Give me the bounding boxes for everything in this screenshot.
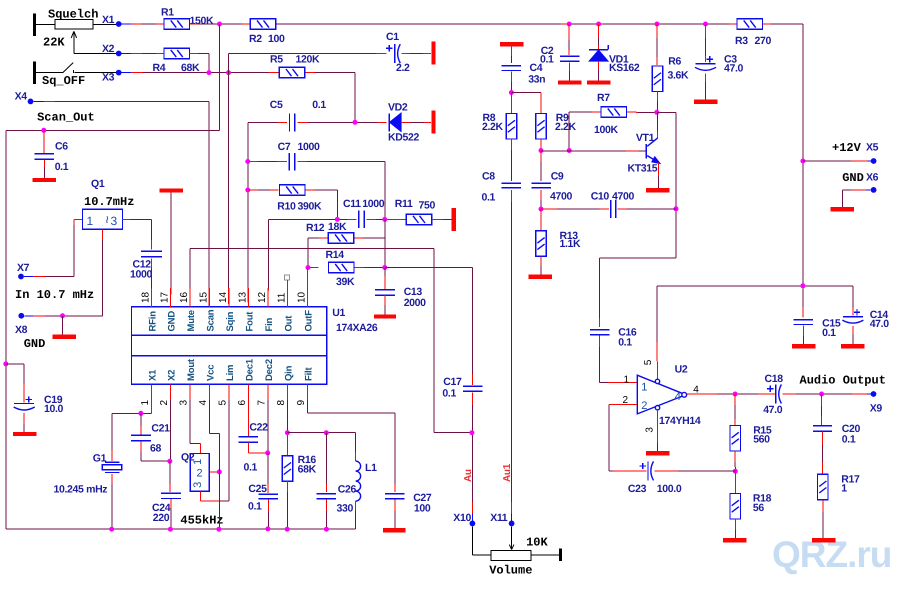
svg-text:4700: 4700 [550, 191, 572, 203]
svg-text:R14: R14 [326, 249, 345, 261]
wire Q1 pin2 to X8 gnd [102, 229, 104, 240]
svg-text:C22: C22 [249, 422, 268, 434]
svg-text:1000: 1000 [130, 268, 152, 280]
svg-text:100K: 100K [594, 124, 618, 136]
svg-text:OutF: OutF [303, 310, 314, 332]
svg-text:0.1: 0.1 [312, 99, 326, 111]
VT1 collector [647, 138, 658, 146]
svg-text:Mute: Mute [186, 310, 197, 331]
capacitor C18 polarized [767, 388, 773, 390]
wire pot to X1 [93, 23, 116, 25]
svg-text:L1: L1 [365, 462, 377, 474]
resistor R17 [818, 474, 829, 500]
svg-text:GND: GND [166, 311, 177, 332]
wire to X5 [803, 160, 851, 162]
wire to R13 [540, 209, 542, 222]
svg-text:10.7mHz: 10.7mHz [84, 195, 134, 209]
svg-text:33n: 33n [528, 74, 545, 86]
svg-text:Scan_Out: Scan_Out [37, 111, 95, 125]
svg-text:KT315: KT315 [628, 162, 658, 174]
node junction C21/X2 [167, 459, 172, 464]
resistor R11 [406, 214, 432, 225]
svg-text:6: 6 [237, 400, 248, 406]
node junction C6 branch [41, 128, 46, 133]
wire X8 to junction [24, 315, 33, 317]
svg-text:10.0: 10.0 [44, 403, 64, 415]
wire C7 row [248, 161, 258, 163]
svg-text:9: 9 [296, 400, 307, 406]
wire R10 to C11 row [306, 189, 315, 191]
wire to C2 [568, 24, 570, 40]
svg-text:KS162: KS162 [609, 62, 640, 74]
svg-text:0.1: 0.1 [55, 161, 69, 173]
ground pin17 GND bar [160, 188, 184, 192]
svg-text:Volume: Volume [489, 564, 532, 578]
node junction X3/R4 [207, 70, 212, 75]
svg-text:0.1: 0.1 [482, 192, 496, 204]
wire to C19 [6, 363, 24, 365]
svg-text:Mout: Mout [186, 358, 197, 381]
ground bus wire [6, 528, 356, 530]
wire C3 to ground [705, 73, 707, 82]
svg-text:14: 14 [218, 291, 229, 303]
svg-text:R7: R7 [597, 92, 610, 104]
svg-text:100: 100 [414, 502, 431, 514]
svg-text:1: 1 [641, 381, 647, 393]
node junction R5/C5/VD2 [353, 120, 358, 125]
svg-text:+12V: +12V [832, 141, 862, 155]
wire C1 row from X3 junction [228, 54, 230, 73]
node junction X8 ground [60, 313, 65, 318]
connector X6 [871, 187, 877, 193]
wire C18 to X9 [783, 393, 796, 395]
node junction C20 [819, 392, 824, 397]
svg-text:4: 4 [198, 400, 209, 406]
crystal filter Q2 body [190, 454, 209, 492]
svg-text:220: 220 [153, 512, 170, 524]
wire Q1 pin3 to pin18 RFin [123, 218, 131, 220]
wire pin4 Vcc jog down to bus [209, 400, 211, 433]
wire C10 row [541, 208, 557, 210]
resistor R3 [737, 19, 763, 30]
wire C9 to C10 row [540, 190, 542, 200]
node junction R7 column [567, 148, 572, 153]
node junction X3/C1 branch [226, 70, 231, 75]
wire Mute pin16 row [189, 288, 191, 307]
svg-text:RFin: RFin [147, 311, 158, 332]
node junction C7 [245, 159, 250, 164]
wire X6 to ground [866, 189, 871, 191]
wire R18 to ground [734, 519, 736, 530]
resistor R2 [250, 19, 276, 30]
capacitor C23 polarized [640, 465, 646, 467]
node junction Q2 pin2 [217, 469, 222, 474]
connector X4 [28, 99, 34, 105]
svg-text:1.1K: 1.1K [560, 238, 582, 250]
wire C25 to bus [267, 500, 269, 512]
wire junction to R8 [510, 93, 512, 114]
ground C2 [558, 80, 582, 84]
svg-text:100.0: 100.0 [657, 483, 682, 495]
ground R11 terminal [452, 208, 456, 231]
svg-text:18K: 18K [328, 221, 347, 233]
svg-text:Q1: Q1 [91, 178, 105, 190]
wire C14 to ground [852, 326, 854, 334]
svg-text:13: 13 [237, 291, 248, 303]
connector X3 [116, 70, 122, 76]
wire C22 jog to pin7 line [247, 442, 249, 453]
svg-text:X2: X2 [166, 370, 177, 381]
svg-text:X8: X8 [15, 324, 28, 336]
svg-text:C5: C5 [270, 99, 283, 111]
svg-text:Out: Out [283, 315, 294, 332]
svg-text:1: 1 [624, 374, 630, 385]
no-connect square pin11 [284, 275, 289, 280]
node junction bus C26 [324, 527, 329, 532]
connector X11 [509, 521, 515, 527]
svg-text:Sq_OFF: Sq_OFF [42, 74, 85, 88]
svg-text:2: 2 [641, 400, 647, 412]
wire R12 row [384, 219, 386, 267]
svg-text:Dec1: Dec1 [244, 358, 255, 381]
svg-text:C9: C9 [551, 171, 564, 183]
resistor R4 [164, 48, 190, 59]
svg-text:3: 3 [644, 427, 655, 433]
wire R13 to ground [540, 256, 542, 266]
capacitor C17 [463, 385, 483, 387]
svg-text:C26: C26 [338, 483, 357, 495]
wire to C25 [267, 453, 269, 484]
ground C6 [33, 178, 57, 182]
zener diode VD1 KS162 [589, 49, 608, 51]
wire pin13 vertical Fout [247, 122, 249, 288]
svg-text:C10: C10 [591, 191, 610, 203]
node junction R15 [733, 392, 738, 397]
ground VD1 [587, 80, 611, 84]
svg-text:Au: Au [463, 469, 474, 482]
svg-text:10.245 mHz: 10.245 mHz [54, 484, 108, 496]
potentiometer Squelch 22K left terminal [33, 14, 36, 37]
svg-text:R1: R1 [161, 7, 174, 19]
svg-text:C6: C6 [55, 141, 68, 153]
svg-text:68: 68 [150, 442, 161, 454]
wire +12V branch row [657, 285, 853, 287]
svg-text:C23: C23 [628, 483, 647, 495]
wire R1-junction down and left rail [219, 24, 221, 130]
svg-text:R12: R12 [306, 222, 325, 234]
node junction C21 branch [138, 411, 143, 416]
wire R12 left to pin10 branch [319, 237, 327, 239]
capacitor C15 [802, 316, 804, 319]
wire C2 to ground [569, 62, 571, 71]
wire X3 to R5 [122, 72, 132, 74]
wire C11 row from pin12 Fin [267, 219, 269, 288]
resistor R18 [730, 493, 741, 519]
svg-text:Sqin: Sqin [225, 311, 236, 331]
svg-text:2.2K: 2.2K [555, 121, 577, 133]
resistor R1 [164, 19, 190, 30]
svg-text:7: 7 [257, 400, 268, 406]
U2 pin5 circle [655, 379, 659, 383]
wire C16 to U2 pin1 [599, 336, 601, 347]
node junction C22/Dec2 [265, 450, 270, 455]
svg-text:R10: R10 [277, 201, 296, 213]
svg-text:C21: C21 [151, 423, 170, 435]
capacitor C26 [317, 493, 337, 495]
wire L1 to bus [355, 501, 357, 510]
wire pin1 X1 row [150, 400, 152, 413]
ground C19 [13, 432, 37, 436]
wire C8 down to X11 [510, 190, 512, 202]
wire X7 to Q1 pin1 [24, 276, 33, 278]
wire VT1 base row [541, 150, 626, 152]
svg-text:GND: GND [842, 171, 864, 185]
node junction R10/C11 [335, 217, 340, 222]
ground VT1 [646, 188, 670, 192]
wire R9 to VT1 base row [540, 139, 542, 151]
svg-text:390K: 390K [298, 201, 322, 213]
capacitor C1 polarized [386, 47, 392, 49]
capacitor C8 [502, 182, 522, 184]
U2 output circle [682, 392, 687, 397]
resistor R14 [328, 262, 354, 273]
ground R13 [529, 275, 553, 279]
wire C5 to VD2 [298, 121, 309, 123]
capacitor C22 [239, 436, 259, 438]
wire C21 to pin2 line [140, 441, 142, 452]
ground C13 [374, 314, 396, 318]
svg-text:Filt: Filt [303, 367, 314, 381]
node junction X5 [800, 159, 805, 164]
wire [36, 23, 55, 25]
svg-text:In 10.7 mHz: In 10.7 mHz [15, 288, 94, 302]
ground C27 [383, 528, 406, 532]
svg-text:X7: X7 [17, 262, 30, 274]
wire to ground [62, 316, 64, 335]
capacitor C24 [161, 492, 181, 494]
capacitor C5 [289, 113, 291, 131]
wire to C24 [169, 461, 171, 484]
ground X8 [53, 335, 77, 339]
connector X10 [470, 521, 476, 527]
wire C20 branch [821, 394, 823, 406]
wire R15 branch [734, 394, 736, 405]
svg-text:2: 2 [159, 400, 170, 406]
connector X1 [116, 21, 122, 27]
svg-text:C11: C11 [343, 198, 361, 210]
node junction C19 branch [3, 361, 8, 366]
resistor R13 [536, 231, 547, 257]
svg-text:Scan: Scan [206, 309, 217, 331]
svg-text:330: 330 [337, 502, 354, 514]
wire R7 row [569, 111, 592, 113]
node junction C17/Mute row [469, 430, 474, 435]
wire C23 row [609, 470, 613, 472]
capacitor C9 [540, 151, 542, 163]
wire R1 to R2 [190, 23, 199, 25]
wire R15 to C23 junction [734, 451, 736, 462]
node junction R1 out [217, 22, 222, 27]
svg-text:Squelch: Squelch [48, 7, 98, 21]
svg-text:56: 56 [753, 502, 764, 514]
svg-text:22K: 22K [43, 36, 65, 50]
ground VD2 terminal [431, 110, 435, 133]
node junction R6/R7/VT1 [654, 110, 659, 115]
capacitor C2 [560, 55, 580, 57]
resistor R12 [328, 233, 354, 244]
svg-text:5: 5 [643, 359, 654, 365]
svg-text:1: 1 [192, 459, 204, 465]
node junction +12V branch [800, 283, 805, 288]
wire C15 to ground [802, 326, 804, 337]
capacitor C19 polarized [26, 399, 32, 401]
svg-text:11: 11 [276, 292, 287, 303]
wire C7 to C11 junction [298, 161, 308, 163]
wire R11 to terminal [432, 218, 443, 220]
svg-text:Qin: Qin [283, 365, 294, 381]
wire VD2 to ground [401, 121, 411, 123]
connector X9 [871, 391, 877, 397]
wire R14 row to C17 column [385, 267, 473, 269]
wire pin6 Dec1 to C22 [247, 400, 249, 436]
wire to C14 [852, 286, 854, 308]
wire Q2 pin3 jog [199, 491, 201, 501]
node junction bus Q2 [216, 527, 221, 532]
node junction C10 right [674, 206, 679, 211]
capacitor C10 [610, 200, 612, 218]
svg-text:1000: 1000 [362, 198, 384, 210]
svg-text:39K: 39K [336, 276, 355, 288]
node junction C3 [703, 22, 708, 27]
wire X10 to volume pot [471, 526, 473, 555]
wire C8 column [510, 139, 512, 150]
wire R14 row [308, 267, 319, 269]
capacitor C3 polarized [707, 58, 713, 60]
svg-text:C18: C18 [765, 373, 784, 385]
wire pin7 Dec2 column [267, 400, 269, 453]
resistor R16 [282, 456, 293, 482]
node junction bus C24 [168, 527, 173, 532]
node junction R10 [245, 188, 250, 193]
resistor R15 [730, 426, 741, 452]
wire C26 to bus [325, 499, 327, 511]
capacitor C25 [259, 493, 279, 495]
capacitor C12 [141, 250, 162, 252]
svg-text:10K: 10K [526, 536, 548, 550]
wire Qin row to L1 [287, 432, 355, 434]
wire junction to R9 [511, 92, 541, 94]
ground X6 [831, 207, 855, 211]
svg-text:560: 560 [753, 434, 770, 446]
wire C10 right [618, 208, 628, 210]
svg-text:C1: C1 [386, 31, 399, 43]
potentiometer wiper arrow [73, 32, 75, 54]
svg-text:X10: X10 [453, 512, 471, 524]
svg-text:X4: X4 [15, 90, 28, 102]
wire U2 output row [687, 393, 717, 395]
capacitor C14 polarized [854, 311, 860, 313]
ground R18 [723, 538, 747, 542]
svg-text:1: 1 [841, 482, 847, 494]
wire R10 row [248, 189, 258, 191]
svg-text:15: 15 [199, 291, 210, 303]
wire pin2 X2 column [169, 400, 171, 461]
wire R4 down to X3 line [190, 53, 199, 55]
svg-text:Fin: Fin [264, 317, 275, 331]
wire Q2 pin2 to column [209, 471, 219, 473]
VT1 emitter with arrow [647, 156, 659, 163]
wire volume wiper [511, 526, 513, 548]
wire to C4 [510, 47, 512, 57]
connector X2 [116, 51, 122, 57]
wire pin9 Filt to C27 [306, 400, 308, 413]
svg-text:18: 18 [140, 291, 151, 303]
op-amp U2 174YH14 triangle [637, 375, 686, 414]
svg-text:68K: 68K [298, 464, 317, 476]
capacitor C21 [140, 413, 142, 426]
wire volume right terminal [531, 554, 559, 556]
svg-text:4700: 4700 [612, 191, 634, 203]
U2 pin3 circle [655, 406, 659, 410]
svg-text:455kHz: 455kHz [180, 513, 223, 527]
wire to VD1 [598, 24, 600, 38]
svg-text:U2: U2 [675, 364, 688, 376]
crystal G1 [105, 461, 120, 463]
svg-text:3.6K: 3.6K [668, 70, 690, 82]
svg-text:Lim: Lim [225, 365, 236, 381]
wire C20 to R17 [822, 432, 824, 445]
wire U2 pin3 to ground [657, 410, 659, 442]
svg-text:C8: C8 [482, 171, 495, 183]
wire wiper to X2 [74, 53, 116, 55]
svg-text:47.0: 47.0 [763, 404, 783, 416]
svg-text:X2: X2 [102, 43, 115, 55]
connector X8 [18, 313, 24, 319]
svg-text:5: 5 [218, 400, 229, 406]
wire C24 to bus [170, 499, 172, 510]
svg-text:0.1: 0.1 [822, 327, 836, 339]
svg-text:X3: X3 [102, 72, 115, 84]
capacitor C27 [385, 493, 405, 495]
wire R16 to bus [286, 481, 288, 492]
wire C12 to pin18 [151, 259, 153, 269]
svg-text:VT1: VT1 [636, 132, 655, 144]
resistor R7 [601, 107, 627, 118]
resistor R5 [279, 67, 305, 78]
svg-text:12: 12 [257, 291, 268, 303]
wire X1 to R1 [122, 23, 132, 25]
svg-text:X11: X11 [490, 512, 508, 524]
ground R17 [812, 538, 836, 542]
svg-text:270: 270 [755, 35, 772, 47]
ground C4 top bar [500, 42, 524, 46]
svg-text:R5: R5 [270, 54, 283, 66]
wire switch to X3 [74, 72, 116, 74]
svg-text:0.1: 0.1 [618, 337, 632, 349]
capacitor C4 [501, 65, 520, 67]
wire R17 to ground [822, 500, 824, 512]
wire C26 branch [325, 433, 327, 484]
node junction VD1 [596, 22, 601, 27]
wire R5 to C5 row [306, 72, 316, 74]
svg-text:R2: R2 [249, 33, 262, 45]
wire C10 row to C16 column [599, 257, 676, 259]
switch Sq_OFF left terminal [33, 62, 36, 84]
svg-text:GND: GND [24, 337, 46, 351]
node junction C26 branch [324, 430, 329, 435]
svg-text:Dec2: Dec2 [264, 359, 275, 381]
svg-text:174XA26: 174XA26 [336, 322, 378, 334]
